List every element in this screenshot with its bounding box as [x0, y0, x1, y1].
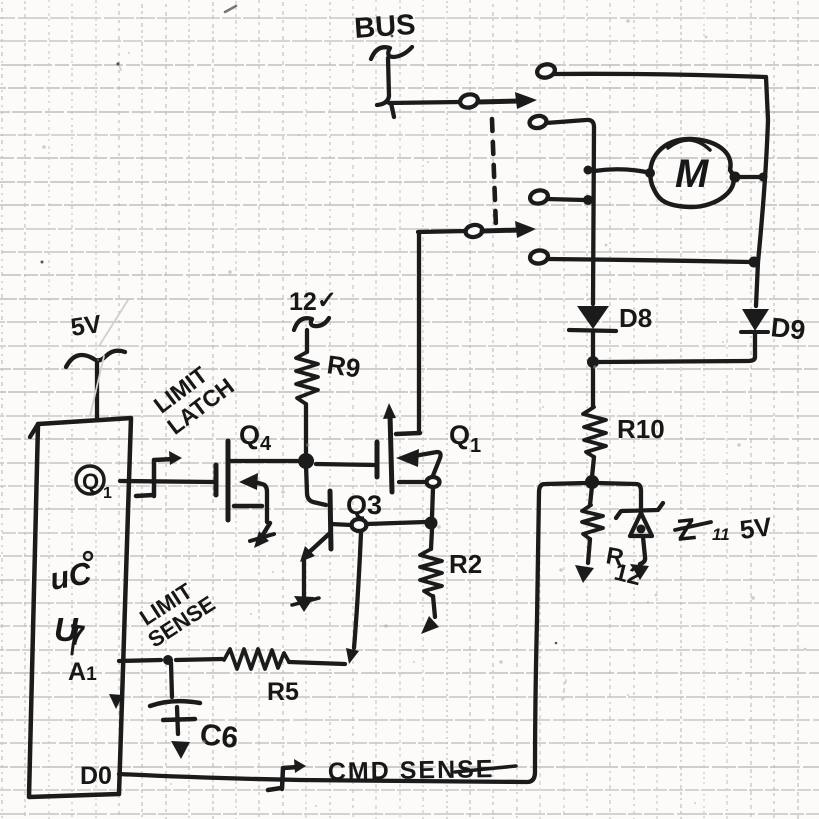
svg-text:R2: R2 [449, 549, 482, 579]
svg-text:R5: R5 [267, 678, 299, 706]
svg-text:CMD SENSE: CMD SENSE [328, 755, 495, 786]
svg-text:Q: Q [82, 469, 99, 494]
svg-text:Q3: Q3 [346, 490, 382, 520]
svg-text:D0: D0 [80, 762, 112, 790]
svg-text:Q1: Q1 [449, 420, 481, 457]
svg-text:5V: 5V [69, 310, 103, 342]
svg-text:R9: R9 [325, 349, 362, 383]
svg-text:Q4: Q4 [239, 420, 272, 455]
svg-text:7: 7 [67, 619, 86, 653]
svg-text:uC: uC [47, 555, 94, 597]
svg-text:A1: A1 [68, 658, 97, 686]
svg-text:BUS: BUS [353, 9, 416, 45]
svg-text:D8: D8 [619, 303, 652, 333]
svg-text:12✓: 12✓ [289, 287, 337, 316]
svg-text:11: 11 [712, 525, 730, 544]
svg-text:D9: D9 [769, 312, 806, 345]
svg-text:5V: 5V [738, 511, 774, 545]
svg-text:C6: C6 [198, 718, 240, 755]
svg-text:Z: Z [675, 511, 698, 548]
svg-text:M: M [675, 152, 710, 196]
svg-text:R10: R10 [617, 414, 665, 444]
svg-text:12: 12 [612, 559, 644, 592]
svg-text:1: 1 [103, 485, 112, 502]
